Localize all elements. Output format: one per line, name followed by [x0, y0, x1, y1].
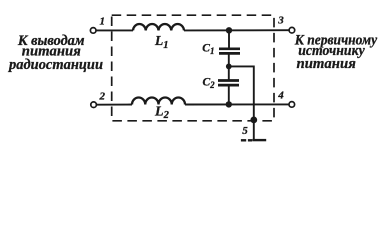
svg-text:2: 2	[99, 91, 106, 103]
terminal 2	[91, 102, 97, 108]
shield box (dashed enclosure)	[112, 15, 274, 121]
wire top-left	[96, 29, 133, 31]
node junction top	[226, 27, 232, 33]
wire top-right	[184, 29, 289, 31]
capacitor C2	[218, 81, 239, 86]
terminal 5 node	[250, 117, 257, 124]
svg-text:питания: питания	[297, 56, 357, 72]
svg-text:радиостанции: радиостанции	[7, 57, 103, 73]
node junction bottom	[226, 101, 232, 107]
wire C2 top lead	[228, 66, 230, 80]
svg-text:1: 1	[100, 15, 106, 27]
terminal 1	[90, 28, 96, 34]
capacitor C1	[219, 49, 240, 54]
terminal 4	[289, 102, 295, 108]
svg-text:L2: L2	[154, 105, 170, 122]
right caption: К первичному источнику питания	[294, 32, 378, 72]
wire bottom-left	[96, 104, 132, 106]
terminal 3	[289, 27, 295, 33]
svg-text:C1: C1	[202, 43, 214, 56]
svg-text:L1: L1	[154, 33, 169, 51]
svg-text:4: 4	[277, 90, 284, 102]
wire C1 top lead	[228, 30, 230, 48]
svg-text:5: 5	[242, 125, 248, 137]
left caption: К выводам питания радиостанции	[7, 33, 103, 73]
svg-text:3: 3	[277, 15, 284, 27]
inductor L2	[132, 97, 185, 104]
ground	[241, 139, 266, 142]
wire C1 bottom lead	[228, 53, 230, 66]
wire branch to terminal 5	[229, 66, 254, 139]
wire C2 bottom lead	[228, 85, 230, 104]
svg-text:C2: C2	[203, 77, 216, 90]
wire bottom-right	[185, 103, 289, 105]
node between C1 and C2	[226, 64, 232, 70]
inductor L1	[133, 24, 184, 30]
